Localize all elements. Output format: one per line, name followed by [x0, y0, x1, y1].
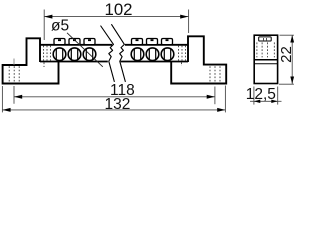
svg-text:132: 132 — [104, 96, 130, 113]
svg-text:22: 22 — [278, 46, 295, 63]
svg-text:102: 102 — [105, 0, 133, 19]
svg-text:12,5: 12,5 — [246, 86, 276, 103]
svg-text:ø5: ø5 — [51, 18, 69, 35]
